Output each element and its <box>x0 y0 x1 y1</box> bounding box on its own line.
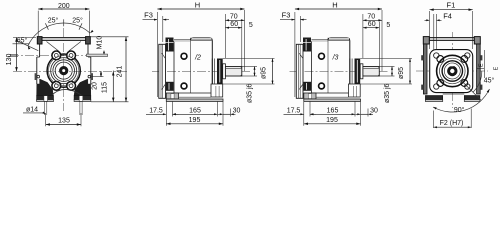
left body edge upper <box>39 44 41 57</box>
radial tick 65 <box>79 23 82 29</box>
square output flange <box>430 50 473 93</box>
front foot slot <box>171 94 174 99</box>
oil plug top <box>181 53 187 59</box>
svg-text:90°: 90° <box>454 106 465 114</box>
horizontal centerline view4 <box>416 70 488 72</box>
flange top tab <box>166 38 174 52</box>
keyway <box>450 63 454 66</box>
90 deg arc <box>433 89 490 112</box>
worm axis centerline view1 <box>10 54 107 56</box>
dim 17.5 <box>165 102 167 126</box>
body top left <box>174 38 191 40</box>
svg-text:60: 60 <box>230 21 238 28</box>
dim 195 <box>166 123 223 125</box>
right foot hole slot <box>79 96 83 102</box>
svg-text:195: 195 <box>189 117 201 124</box>
flange bottom tab <box>166 82 174 91</box>
body front face <box>173 41 175 93</box>
output shaft <box>225 67 241 77</box>
svg-text:E: E <box>478 63 484 67</box>
45 deg arc <box>473 71 482 92</box>
svg-text:F3: F3 <box>144 11 153 20</box>
boss lobe <box>52 51 61 60</box>
output flange plate dark <box>217 59 223 85</box>
radial tick 90 <box>63 19 65 26</box>
dim 200 <box>37 11 39 37</box>
swivel arc 25/25 deg <box>28 23 90 46</box>
svg-text:17.5: 17.5 <box>149 107 163 114</box>
right web diagonal <box>69 42 81 52</box>
output boss scallop outline <box>47 54 80 87</box>
svg-text:ø35 j6: ø35 j6 <box>247 83 254 103</box>
radial tick 115 <box>45 23 48 29</box>
left side bump v1 <box>35 73 37 80</box>
svg-text:M10: M10 <box>97 36 104 50</box>
svg-text:5: 5 <box>249 22 253 29</box>
boss lobe <box>67 81 76 90</box>
vertical centerline view1 <box>63 28 65 111</box>
worm shaft stub left bottom <box>8 55 18 57</box>
dim 165 <box>217 102 219 117</box>
shaft chamfer bottom <box>240 75 242 76</box>
svg-text:ø95: ø95 <box>261 67 268 79</box>
svg-text:241: 241 <box>116 66 123 78</box>
svg-text:/2: /2 <box>194 55 201 62</box>
dim diam 95 <box>223 58 275 60</box>
svg-text:F4: F4 <box>443 12 452 21</box>
body hump <box>191 38 213 93</box>
dim 241 <box>90 36 128 38</box>
lobe hole <box>69 84 73 88</box>
bore centre <box>450 69 454 73</box>
left side bump <box>421 85 423 90</box>
dim diam 35 j6 <box>242 66 257 68</box>
left dark web <box>37 79 54 96</box>
base recess line <box>179 96 212 98</box>
left foot hole slot <box>44 96 48 102</box>
scallop lobe v4 <box>437 56 444 63</box>
arc left arrow <box>28 46 31 50</box>
dim F2 (H7) <box>433 111 435 129</box>
right side bump <box>480 55 482 60</box>
bearing step <box>214 59 216 85</box>
left jog <box>37 56 40 58</box>
svg-text:/3: /3 <box>332 55 339 62</box>
svg-text:135: 135 <box>58 118 70 125</box>
flange corner bolt hole <box>465 53 470 58</box>
svg-text:25°: 25° <box>72 17 83 25</box>
worm shaft stub right <box>87 54 108 56</box>
view 3: same side view shifted (variant /3) <box>280 0 412 126</box>
boss lobe <box>52 81 61 90</box>
right foot base <box>74 100 91 102</box>
svg-text:E: E <box>494 66 500 70</box>
flange corner bolt hole <box>434 53 439 58</box>
right body edge upper <box>87 44 89 57</box>
front foot pedestal <box>166 93 178 99</box>
65 deg radial line <box>17 41 39 51</box>
arrow at worm axis housing edge <box>87 54 92 57</box>
left foot base <box>37 100 54 102</box>
svg-text:45°: 45° <box>484 76 495 84</box>
svg-text:20: 20 <box>92 82 99 90</box>
flange corner bolt hole <box>465 84 470 89</box>
right side bump v1 <box>91 73 93 80</box>
dim 20 <box>92 76 104 78</box>
rear slot line <box>215 86 217 97</box>
hub centre <box>62 69 65 72</box>
dim H <box>157 8 244 10</box>
small label E <box>477 68 484 70</box>
left foot base v4 <box>425 100 442 102</box>
dim F4 <box>433 14 435 50</box>
vertical centerline view4 <box>451 32 453 108</box>
right lug hole <box>88 75 91 78</box>
dim 30 <box>222 102 224 126</box>
right jog <box>88 56 91 58</box>
top-left lug v4 <box>423 37 429 44</box>
boss lobe <box>67 51 76 60</box>
flange corner bolt hole <box>434 84 439 89</box>
right foot base v4 <box>464 100 480 102</box>
input flange plate <box>159 44 166 98</box>
45 deg corner line <box>462 81 481 100</box>
left side bump <box>421 55 423 60</box>
scallop lobe v4 <box>461 80 468 87</box>
svg-text:30: 30 <box>233 108 241 115</box>
svg-text:ø14: ø14 <box>26 106 38 113</box>
flange hub chamfer bottom <box>162 84 166 89</box>
horizontal centerline view1 <box>13 70 129 72</box>
right foot dark <box>74 96 91 100</box>
dim F1 <box>429 11 431 49</box>
bottom edge between feet v4 <box>443 93 465 95</box>
arch between feet <box>52 89 83 95</box>
65 label underline <box>13 43 30 45</box>
svg-text:165: 165 <box>189 107 201 114</box>
left body edge mid <box>36 57 38 84</box>
dim 70 <box>224 14 226 58</box>
left side band v4 <box>423 44 427 94</box>
svg-text:200: 200 <box>58 3 70 10</box>
lobe hole <box>54 54 58 58</box>
base plate <box>166 99 223 101</box>
worm shaft stub left top <box>8 53 18 55</box>
housing top face band <box>38 38 89 41</box>
scallop lobe v4 <box>437 80 444 87</box>
dim 130 <box>13 37 36 39</box>
svg-text:25°: 25° <box>48 17 59 25</box>
right foot v4 <box>464 96 480 100</box>
housing top band v4 <box>429 38 474 41</box>
oil plug bottom <box>181 83 187 89</box>
scallop lobe v4 <box>461 56 468 63</box>
keyway line <box>226 67 242 69</box>
svg-text:70: 70 <box>230 13 238 20</box>
svg-text:F2 (H7): F2 (H7) <box>440 120 464 127</box>
shaft chamfer top <box>240 67 242 68</box>
output bore concentric circles <box>49 55 79 85</box>
rear slot line2 <box>218 86 220 97</box>
dim 115 <box>91 101 129 103</box>
rear pedestal <box>211 84 223 97</box>
top-left lug <box>37 37 42 44</box>
svg-text:F1: F1 <box>447 1 456 10</box>
right dark web <box>74 79 91 96</box>
left lug hole <box>37 75 40 78</box>
flange pilot <box>223 64 226 79</box>
left foot v4 <box>425 96 442 100</box>
dim 60 <box>241 22 243 67</box>
centerline side view <box>152 70 250 72</box>
shaft hub dark <box>59 66 68 75</box>
right side band v4 <box>477 44 481 94</box>
lobe hole <box>69 54 73 58</box>
flange circles <box>437 55 468 86</box>
svg-text:130: 130 <box>6 54 13 66</box>
F3 / H extension line <box>156 12 158 97</box>
right side bump <box>480 85 482 90</box>
left foot dark <box>37 96 54 100</box>
dim 135 <box>44 102 46 115</box>
flange hub chamfer top <box>162 53 166 58</box>
right body edge mid <box>90 57 92 84</box>
body bottom <box>174 92 212 94</box>
top-right lug v4 <box>474 37 480 44</box>
hollow bore hub <box>447 66 457 76</box>
lobe hole <box>54 84 58 88</box>
top-right lug <box>86 37 91 44</box>
svg-text:115: 115 <box>102 82 109 93</box>
left web diagonal <box>47 42 59 52</box>
arc right arrow <box>90 30 93 33</box>
svg-text:H: H <box>195 0 200 9</box>
